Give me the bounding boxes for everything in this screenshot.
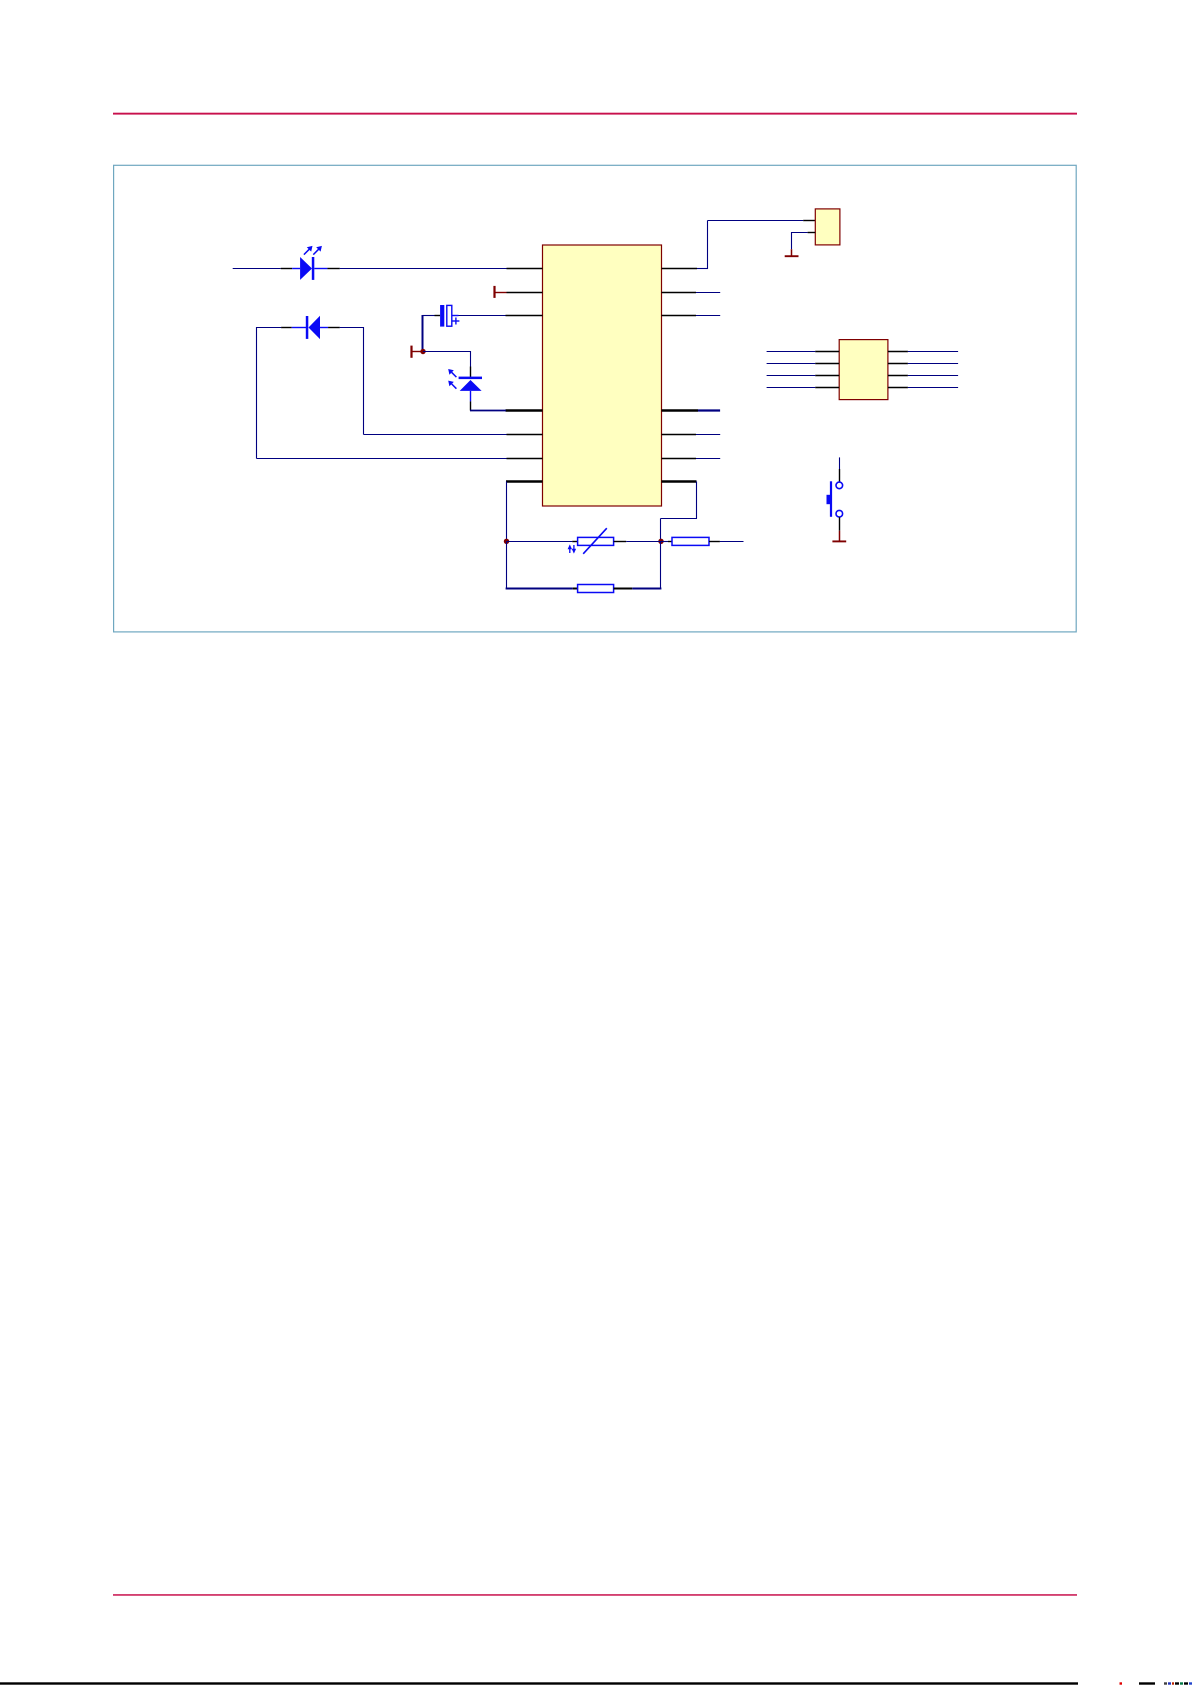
pin 2 of CN1 [808,232,816,234]
pin 4 of CN2 (left) [815,387,839,389]
pin 3 of U1 (left) [506,315,543,317]
pin 5 of U1 (left) [507,434,543,436]
wire CN2 left stub 3 [767,375,816,377]
footer rule [113,1594,1077,1596]
diode D3 (pointing left) [257,316,364,339]
pin 6 of U1 (left) [507,458,543,460]
junction J3 [504,539,509,544]
wire switch SW1 top stub [839,457,841,469]
wire R2 right stub [720,541,744,543]
pin 2 of CN2 (left) [815,363,839,365]
wire LED D1 left stub [233,268,281,270]
wire C1 to node J1 [422,315,424,352]
pin 6 of CN2 (right) [888,363,908,365]
pin 10 of U1 (right) [662,315,697,317]
pin 1 of CN2 (left) [815,351,839,353]
wire LED D2 to U1 pin4 [470,410,506,412]
LED D2 (emitting diode, vertical) [448,367,482,411]
connector CN1 [815,209,840,245]
varistor RV1 (adjustable resistor) [568,528,627,554]
pin 11 of U1 (right, bold) [662,409,699,411]
wire U1 pin7 to node J3 [506,482,508,542]
wire CN2 right stub 5 [908,351,958,353]
pin 7 of U1 (left, bold) [506,480,543,482]
wire RV1 to J2 [626,541,661,543]
wire J3 to lower loop [506,542,508,589]
wire U1 pin11 stub (bold) [698,409,720,411]
pin 3 of CN2 (left) [815,375,839,377]
pin 14 of U1 (right, bold) [662,480,697,482]
wire CN2 left stub 4 [767,387,816,389]
wire lower loop left (bold) [506,588,573,590]
capacitor C1 (electrolytic) [423,305,460,327]
power symbol P2 at node J1 [412,346,421,358]
schematic frame [114,165,1077,632]
ground GND2 below SW1 [832,531,846,542]
switch SW1 (pushbutton) [827,469,843,531]
bottom edge cut-off text artifacts [0,1682,1192,1684]
pin 8 of U1 (right) [662,268,698,270]
wire U1 pin14 to node J2 [661,482,698,542]
pin 13 of U1 (right) [662,458,697,460]
wire U1 pin13 stub [696,458,720,460]
pin 1 of CN1 [803,220,815,222]
pin 1 of U1 (left) [507,268,543,270]
LED D1 (emitting diode, right) [281,246,340,280]
resistor R2 [661,537,720,545]
pin 9 of U1 (right) [662,292,697,294]
wire CN2 right stub 8 [908,387,958,389]
junction J1 [420,349,425,354]
IC U1 [543,245,662,506]
ground GND1 [785,249,799,256]
wire CN2 right stub 7 [908,375,958,377]
wire U1 pin8 to CN1 [697,221,803,270]
wire U1 pin12 stub [696,434,720,436]
pin 8 of CN2 (right) [888,387,908,389]
wire J2 to lower loop [660,542,662,589]
pin 4 of U1 (left, bold) [506,409,543,411]
wire CN2 left stub 2 [767,363,816,365]
junction J2 [658,539,663,544]
wire U1 pin9 stub [696,292,720,294]
connector CN2 [839,340,888,400]
wire J3 to varistor RV1 [507,541,573,543]
pin 7 of CN2 (right) [888,375,908,377]
power symbol P1 at U1 pin2 [495,286,507,298]
pin 12 of U1 (right) [662,434,697,436]
wire U1 pin10 stub [696,315,720,317]
wire CN1 pin2 to ground [792,232,808,249]
pin 5 of CN2 (right) [888,351,908,353]
resistor R3 [573,585,633,593]
wire lower loop right (bold) [632,588,661,590]
wire D3 anode loop (left/bottom) [257,327,507,459]
wire CN2 left stub 1 [767,351,816,353]
pin 2 of U1 (left) [507,292,543,294]
header rule [113,113,1077,115]
wire CN2 right stub 6 [908,363,958,365]
wire LED D1 to U1 pin1 [340,268,507,270]
wire D3 cathode loop (right/bottom) [364,327,507,435]
wire J1 to LED D2 [423,351,471,367]
wire C1 to U1 pin3 [459,315,506,317]
